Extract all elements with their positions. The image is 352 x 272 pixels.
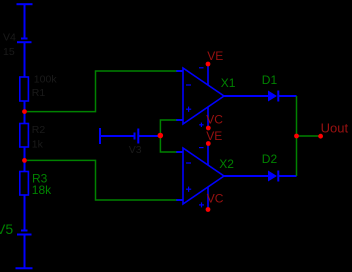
svg-text:V5: V5 — [0, 221, 13, 237]
svg-text:VE: VE — [206, 129, 222, 143]
svg-text:D1: D1 — [262, 73, 278, 87]
svg-text:D2: D2 — [262, 152, 278, 166]
svg-text:X2: X2 — [219, 157, 234, 171]
svg-text:VE: VE — [207, 49, 223, 63]
svg-text:V4: V4 — [3, 32, 16, 44]
svg-text:R1: R1 — [32, 87, 46, 99]
svg-text:1k: 1k — [32, 139, 44, 151]
svg-text:X1: X1 — [221, 76, 236, 90]
svg-text:VC: VC — [206, 113, 223, 127]
svg-text:V3: V3 — [129, 144, 142, 156]
svg-text:VC: VC — [207, 191, 224, 205]
svg-text:18k: 18k — [32, 183, 52, 197]
svg-text:100k: 100k — [34, 74, 58, 86]
svg-text:R2: R2 — [32, 124, 46, 136]
svg-text:Uout: Uout — [321, 121, 349, 136]
svg-text:15: 15 — [3, 46, 15, 58]
